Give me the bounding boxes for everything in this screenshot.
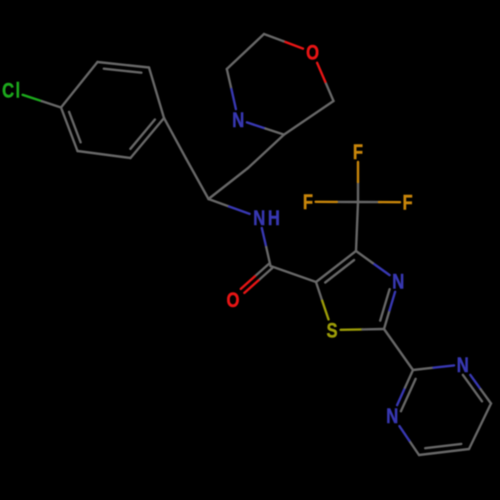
- svg-text:N: N: [232, 109, 244, 132]
- bond CH2-CH (stereocenter): [209, 168, 249, 199]
- thiazole double bond C4=C5: [316, 251, 356, 283]
- svg-text:S: S: [326, 320, 337, 343]
- svg-text:N: N: [392, 271, 404, 294]
- morpholine bond C5-C6: [284, 101, 334, 135]
- bond CH2-CH linker: [186, 159, 209, 200]
- bond Cl-C1 (chloro substituent): [23, 95, 61, 108]
- thiazole bond C5-S1: [316, 282, 329, 319]
- svg-text:F: F: [303, 191, 313, 214]
- benzene bond C5-C6: [78, 151, 131, 158]
- morpholine bond C2-C3: [227, 34, 264, 69]
- pyrimidine bond C6-C5: [469, 404, 491, 450]
- pyrimidine double bond N1=C6: [463, 375, 491, 404]
- svg-text:N: N: [386, 405, 398, 428]
- morpholine bond C3-N4: [227, 69, 236, 109]
- svg-text:F: F: [353, 141, 363, 164]
- thiazole bond S1-C2: [341, 328, 384, 331]
- pyrimidine double bond N3=C2: [397, 370, 416, 411]
- bond NH-C(=O): [262, 228, 271, 266]
- bond thiazole C4-CF3 carbon: [356, 202, 358, 251]
- carbonyl double bond C=O: [241, 264, 272, 293]
- bond CH-NH (amide N): [209, 199, 250, 214]
- svg-text:O: O: [227, 289, 240, 312]
- bond C-F right: [358, 201, 400, 204]
- pyrimidine bond C2-N1: [413, 365, 454, 370]
- svg-text:Cl: Cl: [2, 80, 21, 103]
- morpholine bond O1-C2: [264, 34, 303, 49]
- thiazole double bond C2=N3: [380, 289, 395, 329]
- bond C-F left: [316, 201, 358, 204]
- bond thiazole C2-pyrimidine C2: [384, 329, 413, 370]
- svg-text:O: O: [306, 42, 319, 65]
- pyrimidine double bond C5=C4: [419, 444, 469, 455]
- benzene double bond C6=C1: [61, 108, 81, 152]
- bond C-F top: [357, 162, 359, 202]
- svg-text:NH: NH: [253, 207, 282, 230]
- bond phenyl C4-CH2 linker: [164, 118, 186, 159]
- benzene bond C1-C2: [61, 62, 98, 108]
- morpholine bond N4-C5: [247, 122, 284, 134]
- svg-text:F: F: [403, 192, 413, 215]
- benzene double bond C2=C3: [98, 62, 150, 73]
- morpholine bond C6-O1: [317, 63, 333, 101]
- bond morpholine C5-CH2: [248, 135, 284, 168]
- benzene bond C3-C4: [149, 68, 164, 119]
- bond C(=O)-thiazole C5: [271, 266, 317, 282]
- benzene double bond C4=C5: [130, 118, 164, 158]
- svg-text:N: N: [457, 354, 469, 377]
- pyrimidine bond C4-N3: [399, 426, 419, 455]
- thiazole bond N3-C4: [356, 251, 390, 275]
